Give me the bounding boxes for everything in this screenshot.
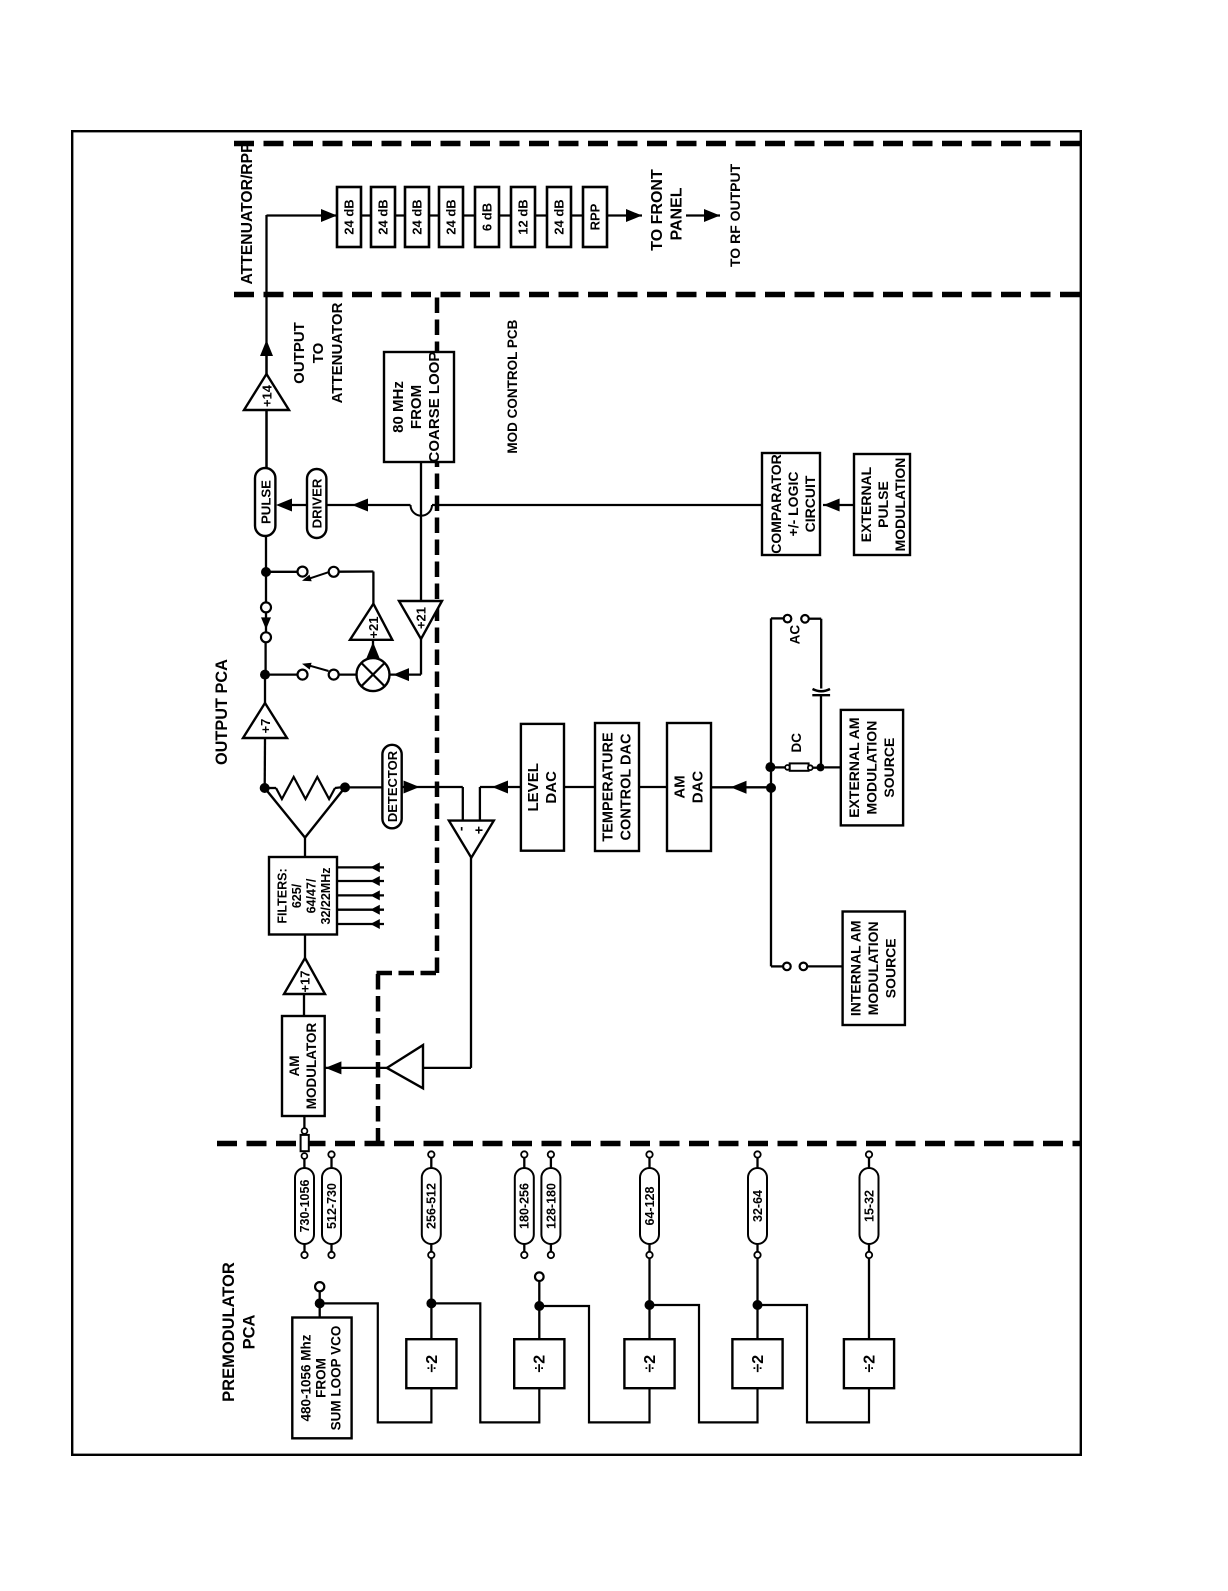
- svg-text:÷2: ÷2: [532, 1355, 549, 1373]
- svg-text:SOURCE: SOURCE: [881, 738, 897, 798]
- svg-text:+21: +21: [366, 616, 381, 638]
- svg-text:24 dB: 24 dB: [375, 199, 390, 234]
- svg-text:OUTPUT PCA: OUTPUT PCA: [213, 659, 231, 765]
- svg-text:+7: +7: [258, 719, 273, 734]
- svg-text:LEVEL: LEVEL: [525, 763, 542, 811]
- svg-text:COMPARATOR: COMPARATOR: [768, 454, 784, 554]
- svg-text:480-1056 Mhz: 480-1056 Mhz: [299, 1334, 314, 1421]
- svg-text:MODULATION: MODULATION: [892, 458, 908, 552]
- svg-text:÷2: ÷2: [861, 1355, 878, 1373]
- svg-text:÷2: ÷2: [750, 1355, 767, 1373]
- svg-text:12 dB: 12 dB: [515, 199, 530, 234]
- svg-text:MOD CONTROL PCB: MOD CONTROL PCB: [505, 319, 520, 453]
- svg-text:AM: AM: [287, 1056, 302, 1077]
- svg-text:DETECTOR: DETECTOR: [385, 750, 400, 822]
- svg-text:PREMODULATOR: PREMODULATOR: [220, 1262, 238, 1402]
- svg-text:AM: AM: [672, 775, 689, 798]
- svg-text:24 dB: 24 dB: [341, 199, 356, 234]
- svg-text:80 MHz: 80 MHz: [390, 381, 407, 433]
- svg-text:+: +: [471, 826, 487, 834]
- svg-text:EXTERNAL: EXTERNAL: [858, 466, 874, 542]
- svg-text:CONTROL DAC: CONTROL DAC: [619, 733, 635, 840]
- svg-text:256-512: 256-512: [425, 1183, 439, 1229]
- svg-text:730-1056: 730-1056: [298, 1180, 312, 1233]
- svg-text:24 dB: 24 dB: [409, 199, 424, 234]
- svg-text:TO RF OUTPUT: TO RF OUTPUT: [727, 163, 743, 267]
- svg-text:PULSE: PULSE: [875, 481, 891, 528]
- svg-text:15-32: 15-32: [862, 1190, 876, 1222]
- svg-text:RPP: RPP: [587, 203, 602, 230]
- svg-text:FROM: FROM: [314, 1358, 329, 1398]
- svg-text:DRIVER: DRIVER: [309, 478, 324, 528]
- svg-text:32-64: 32-64: [751, 1190, 765, 1222]
- svg-text:180-256: 180-256: [518, 1183, 532, 1229]
- svg-text:ATTENUATOR/RPP: ATTENUATOR/RPP: [239, 142, 256, 284]
- svg-text:+14: +14: [259, 384, 274, 407]
- svg-text:÷2: ÷2: [424, 1355, 441, 1373]
- svg-text:FROM: FROM: [408, 385, 425, 429]
- svg-text:ATTENUATOR: ATTENUATOR: [329, 302, 346, 403]
- svg-text:+/- LOGIC: +/- LOGIC: [785, 472, 801, 537]
- svg-text:+17: +17: [297, 970, 312, 992]
- svg-text:INTERNAL AM: INTERNAL AM: [848, 920, 864, 1016]
- svg-text:TO FRONT: TO FRONT: [649, 169, 666, 251]
- svg-text:OUTPUT: OUTPUT: [291, 322, 308, 384]
- svg-text:÷2: ÷2: [642, 1355, 659, 1373]
- svg-text:MODULATOR: MODULATOR: [304, 1023, 319, 1110]
- svg-text:MODULATION: MODULATION: [865, 921, 881, 1015]
- svg-text:64/47/: 64/47/: [305, 878, 319, 913]
- svg-text:32/22MHz: 32/22MHz: [319, 868, 333, 925]
- svg-text:MODULATION: MODULATION: [864, 721, 880, 815]
- svg-text:TO: TO: [310, 342, 327, 363]
- svg-text:PANEL: PANEL: [669, 187, 686, 240]
- svg-text:6 dB: 6 dB: [479, 203, 494, 231]
- svg-text:PULSE: PULSE: [258, 480, 273, 524]
- svg-text:625/: 625/: [290, 883, 304, 908]
- svg-text:SUM LOOP VCO: SUM LOOP VCO: [329, 1326, 344, 1431]
- svg-text:PCA: PCA: [241, 1315, 259, 1350]
- svg-text:TEMPERATURE: TEMPERATURE: [601, 732, 617, 842]
- svg-text:DAC: DAC: [543, 771, 560, 804]
- svg-text:64-128: 64-128: [643, 1186, 657, 1225]
- svg-text:SOURCE: SOURCE: [883, 938, 899, 998]
- svg-text:CIRCUIT: CIRCUIT: [802, 475, 818, 532]
- svg-text:DC: DC: [789, 733, 804, 753]
- svg-text:FILTERS:: FILTERS:: [276, 868, 290, 923]
- svg-text:COARSE LOOP: COARSE LOOP: [426, 352, 443, 463]
- svg-text:+21: +21: [413, 607, 428, 629]
- svg-text:24 dB: 24 dB: [443, 199, 458, 234]
- svg-text:128-180: 128-180: [544, 1183, 558, 1229]
- svg-text:EXTERNAL AM: EXTERNAL AM: [846, 717, 862, 817]
- svg-text:DAC: DAC: [690, 771, 707, 804]
- svg-text:512-730: 512-730: [325, 1183, 339, 1229]
- svg-text:AC: AC: [788, 625, 803, 645]
- svg-text:24 dB: 24 dB: [551, 199, 566, 234]
- svg-text:-: -: [453, 826, 469, 831]
